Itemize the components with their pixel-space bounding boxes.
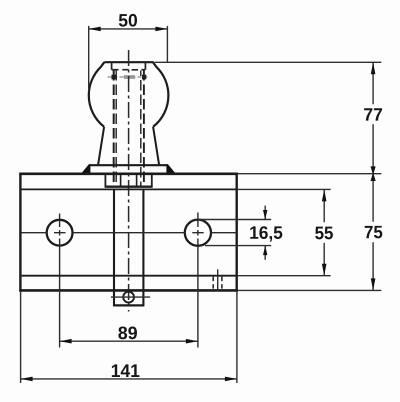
dim 89: dimension line xyxy=(60,340,198,342)
dim 16,5: label xyxy=(250,226,282,241)
dim 89: arrows xyxy=(60,339,72,344)
plate right extension down (for 141) xyxy=(236,292,238,383)
right hole xyxy=(185,220,211,246)
dim 141: label xyxy=(112,364,140,377)
ball top recess xyxy=(112,62,146,70)
plate inner top line xyxy=(22,188,236,190)
dim 75: label xyxy=(365,226,383,239)
dim 75: dimension line xyxy=(372,174,374,291)
right hole vertical centerline xyxy=(197,213,199,348)
inner bottom extension (for 55) xyxy=(237,275,331,277)
plate left edge xyxy=(19,173,21,292)
dim 77: dimension line xyxy=(372,62,374,173)
plate right edge xyxy=(235,173,237,292)
dim 50: arrows xyxy=(89,27,101,32)
tow ball outline xyxy=(89,62,169,127)
dim 55: label xyxy=(315,227,333,240)
left hole xyxy=(47,220,73,246)
cotter pin hole xyxy=(123,292,134,303)
dim 75: arrows xyxy=(371,173,376,182)
dim 77: arrows xyxy=(371,62,376,74)
bolt bottom end xyxy=(113,304,144,306)
dim 89: label xyxy=(118,327,137,340)
dim 77: extension line from ball top xyxy=(155,61,382,63)
dim 50: label xyxy=(119,14,137,27)
dim 55: arrows xyxy=(322,189,327,201)
dim 50: extension lines xyxy=(88,26,90,92)
dim 50: dimension line xyxy=(89,28,168,30)
dim 16,5: bottom arrow xyxy=(264,246,266,260)
dim 16,5: extension lines xyxy=(198,219,271,221)
plate top extension line (for 75) xyxy=(238,173,381,175)
plate left extension down (for 141) xyxy=(20,292,22,383)
inner top extension (for 55) xyxy=(237,188,331,190)
holes horizontal centerline xyxy=(21,232,237,234)
plate bottom edge xyxy=(19,289,238,292)
main vertical centerline xyxy=(128,50,130,312)
bolt shank visible in channel xyxy=(113,189,115,306)
hidden cross-pin in ball xyxy=(108,75,150,80)
neck left edge xyxy=(98,127,104,165)
dim 55: dimension line xyxy=(323,189,325,275)
plate bottom extension line (for 75) xyxy=(238,289,381,291)
left hole vertical centerline xyxy=(59,214,61,348)
dim 77: label xyxy=(364,108,382,120)
dim 141: arrows xyxy=(21,377,33,382)
hidden small hole marks on lower flange xyxy=(217,269,219,291)
neck right edge xyxy=(153,127,159,165)
hidden bolt thread lines (dashed) xyxy=(114,70,144,187)
plate inner bottom line xyxy=(22,275,236,277)
pin hole horizontal centerline xyxy=(111,296,150,298)
dim 141: dimension line xyxy=(21,378,237,380)
plate top edge xyxy=(19,173,238,176)
nut below flange xyxy=(105,175,153,187)
flange left wedge xyxy=(80,164,90,174)
dim 16,5: top arrow xyxy=(264,206,266,220)
flange right wedge xyxy=(166,164,176,174)
flange top line xyxy=(89,164,168,166)
